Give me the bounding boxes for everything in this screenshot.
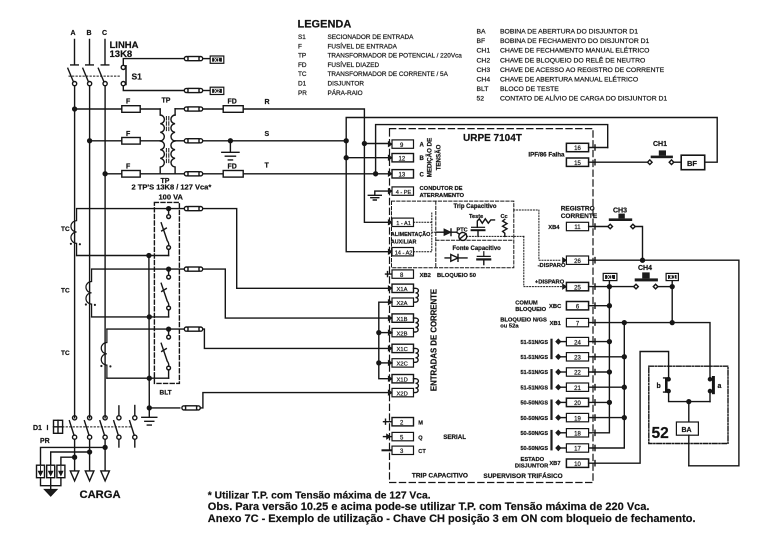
svg-text:A: A: [420, 143, 425, 149]
terminal 16: [566, 143, 588, 151]
svg-text:URPE 7104T: URPE 7104T: [463, 133, 522, 144]
svg-text:13: 13: [399, 173, 406, 179]
junction phase B to S row: [88, 139, 92, 143]
svg-text:S: S: [265, 131, 270, 138]
wire BA bottom: [688, 435, 690, 466]
svg-text:+DISPARO: +DISPARO: [535, 279, 565, 285]
junction CH3 on 26 wire: [641, 258, 645, 262]
junction phase A to R row: [73, 107, 77, 111]
svg-text:B: B: [420, 156, 425, 162]
winding pair B: [414, 318, 419, 332]
svg-text:DISJUNTOR: DISJUNTOR: [328, 81, 365, 88]
wire oval to X1 box: [203, 58, 211, 60]
wire load B: [89, 439, 91, 471]
breaker aux box 52 dash-dot: [649, 366, 728, 443]
svg-text:BLOQUEIO: BLOQUEIO: [515, 307, 546, 313]
svg-text:BA: BA: [477, 29, 487, 36]
svg-text:TC: TC: [61, 288, 70, 295]
svg-text:MEDIÇÃO DE: MEDIÇÃO DE: [427, 138, 434, 178]
svg-text:LEGENDA: LEGENDA: [298, 19, 352, 31]
wire TC3 top lead: [107, 328, 184, 330]
svg-text:a: a: [718, 383, 722, 390]
terminal 10: [566, 459, 588, 467]
svg-text:TRIP CAPACITIVO: TRIP CAPACITIVO: [412, 473, 468, 480]
pair bar 18-17: [550, 430, 552, 451]
wire TC1 top lead: [77, 208, 185, 210]
wire bus to X2B: [379, 332, 392, 334]
terminal X1A: [388, 286, 392, 291]
wire TC3 to X1C: [203, 329, 389, 348]
junction R at terminal 9: [362, 142, 366, 146]
wire R junction to terminal 9: [364, 143, 388, 145]
wire B to arrester 2: [51, 452, 90, 465]
svg-text:TRANSFORMADOR DE POTENCIAL / 2: TRANSFORMADOR DE POTENCIAL / 220Vca: [328, 53, 463, 60]
svg-text:51-51N/GS: 51-51N/GS: [520, 355, 548, 361]
terminal 8: [386, 272, 393, 277]
terminal 2: [384, 419, 393, 424]
terminal X1C: [388, 346, 392, 351]
svg-text:Obs. Para versão 10.25 e acima: Obs. Para versão 10.25 e acima pode-se u…: [208, 501, 650, 513]
TC3 polarity dots: [100, 365, 102, 367]
load arrow C: [101, 471, 110, 481]
svg-text:S1: S1: [132, 72, 143, 82]
dotted PTC output row: [467, 235, 524, 237]
gang linkage dotted line: [69, 75, 122, 77]
wire TC1 bottom lead: [77, 255, 169, 257]
wire CH1 to BF: [674, 161, 681, 163]
wire phase C incoming: [101, 40, 109, 65]
svg-text:PR: PR: [298, 90, 307, 97]
svg-text:BLOQUEIO 50: BLOQUEIO 50: [437, 273, 476, 279]
junction TC2 lead at BLT switch: [167, 267, 171, 271]
svg-text:16: 16: [574, 146, 581, 152]
wire TP secondary top to R oval: [175, 108, 184, 110]
junction S line end: [344, 139, 348, 143]
wire S1 bottom to X2: [123, 86, 184, 91]
svg-text:CH4: CH4: [638, 265, 652, 272]
resistor Cc: [503, 219, 507, 236]
svg-text:X2: X2: [214, 89, 220, 95]
transformer TP secondary winding: [174, 109, 176, 115]
wire S up to top rail toward BF: [346, 118, 717, 163]
label Trip Capacitivo: [452, 203, 498, 209]
current transformer TC1 secondary: [71, 209, 77, 256]
svg-text:Teste: Teste: [469, 214, 483, 220]
svg-text:BLOCO DE TESTE: BLOCO DE TESTE: [500, 86, 559, 93]
winding pair C: [414, 348, 419, 362]
svg-text:b: b: [657, 383, 661, 390]
wire T to relay terminal 13: [243, 173, 388, 175]
svg-text:X2D: X2D: [397, 391, 408, 397]
breaker D1 mechanism box: [54, 420, 63, 433]
wire bus to X2C: [379, 362, 392, 364]
svg-text:X2C: X2C: [397, 362, 408, 368]
svg-text:SECIONADOR DE ENTRADA: SECIONADOR DE ENTRADA: [328, 34, 415, 41]
arrester common bar: [41, 478, 61, 486]
svg-text:25: 25: [574, 285, 581, 291]
wire CH4 right down to 7 net: [671, 287, 673, 323]
terminal X2C: [388, 360, 392, 365]
terminal X1D: [388, 376, 392, 381]
junction BA feed: [687, 400, 691, 404]
svg-text:50-50N/GS: 50-50N/GS: [520, 446, 548, 452]
wire b bottom: [669, 393, 710, 402]
terminal 3: [383, 449, 393, 451]
wire phase A below switch: [74, 86, 76, 418]
disconnect switch pole B: [83, 68, 89, 81]
junction 20 v1: [607, 400, 611, 404]
fuse-link oval X2D row: [182, 406, 186, 410]
svg-text:M: M: [418, 420, 423, 426]
wire S1 top to X1: [123, 59, 184, 66]
terminal 4-PE: [388, 189, 392, 194]
junction phase C to T row: [103, 172, 107, 176]
svg-text:51-51N/GS: 51-51N/GS: [520, 340, 548, 346]
svg-text:CONTATO DE ALÍVIO DE CARGA DO: CONTATO DE ALÍVIO DE CARGA DO DISJUNTOR …: [500, 94, 667, 103]
svg-text:CHAVE DE ABERTURA MANUAL ELÉTR: CHAVE DE ABERTURA MANUAL ELÉTRICO: [500, 75, 638, 84]
svg-text:ALIMENTAÇÃO: ALIMENTAÇÃO: [391, 231, 430, 238]
terminal 9: [388, 142, 392, 147]
svg-text:17: 17: [574, 447, 581, 453]
junction T rail: [374, 172, 378, 176]
terminal X2A: [388, 300, 392, 305]
coil BA: [676, 422, 698, 435]
junction A to PR: [73, 455, 77, 459]
wire CH3 down to 26 net: [635, 227, 642, 261]
svg-text:1 - A1: 1 - A1: [396, 221, 411, 227]
svg-text:XB2: XB2: [420, 273, 431, 279]
svg-text:BLT: BLT: [477, 86, 489, 93]
connector X2: [210, 87, 224, 94]
svg-text:CONDUTOR DE: CONDUTOR DE: [420, 186, 463, 192]
svg-text:CARGA: CARGA: [80, 489, 121, 501]
disconnect switch pole C: [98, 68, 104, 81]
svg-text:Fonte Capacitivo: Fonte Capacitivo: [453, 246, 502, 252]
fuse-link oval TC3 row: [184, 327, 188, 331]
svg-text:CH4: CH4: [477, 77, 491, 84]
wire a bottom: [709, 393, 711, 402]
terminal 7: [566, 318, 588, 326]
fuse-link oval R row: [184, 107, 188, 111]
svg-text:X1D: X1D: [397, 377, 408, 383]
svg-text:TC: TC: [61, 226, 70, 233]
wire S down to 14-A2: [346, 141, 388, 252]
svg-text:CH3: CH3: [613, 208, 627, 215]
pair bar 20-19: [550, 400, 552, 421]
wire phase A incoming: [71, 40, 79, 65]
svg-text:C: C: [420, 172, 425, 178]
svg-text:S1: S1: [298, 34, 306, 41]
svg-text:FUSÍVEL DIAZED: FUSÍVEL DIAZED: [328, 60, 380, 69]
connector X1 right of CH4: [671, 281, 673, 287]
svg-text:PÁRA-RAIO: PÁRA-RAIO: [328, 88, 363, 97]
wire 4-PE to ground: [375, 191, 392, 195]
wire 17 tick: [594, 445, 596, 450]
svg-text:FD: FD: [298, 62, 307, 69]
svg-text:52: 52: [477, 96, 485, 103]
pair bar 24-23: [550, 339, 552, 360]
legend left column descriptions: [328, 34, 463, 97]
diode D aux: [437, 231, 445, 233]
svg-text:A: A: [71, 30, 76, 37]
svg-text:SERIAL: SERIAL: [443, 434, 466, 441]
wire F2 to TP primary mid: [140, 140, 160, 142]
contact b: [667, 378, 670, 381]
wire 15 to CH1: [589, 160, 650, 165]
terminal X1B: [388, 316, 392, 321]
wire R to relay terminal 9: [243, 109, 364, 144]
wire T up to top rail toward terminal 16: [376, 125, 608, 174]
ground below BLT: [142, 408, 157, 425]
svg-text:50-50N/GS: 50-50N/GS: [520, 416, 548, 422]
svg-text:SUPERVISOR TRIFÁSICO: SUPERVISOR TRIFÁSICO: [483, 471, 562, 480]
legend right column descriptions: [500, 29, 667, 103]
wire TC1 to X1A: [203, 209, 389, 289]
svg-text:TC: TC: [298, 71, 307, 78]
junction 21 v2: [622, 385, 626, 389]
wire 11 to CH3: [589, 224, 609, 229]
svg-text:BLOQUEIO N/GS: BLOQUEIO N/GS: [500, 317, 547, 323]
wire A to fuse F1: [75, 108, 122, 110]
wire C to arrester 1: [41, 447, 106, 465]
svg-text:REGISTRO: REGISTRO: [561, 206, 595, 213]
svg-text:XB1: XB1: [550, 321, 562, 327]
resistor Teste: [477, 219, 494, 228]
wire F1 to TP primary: [140, 108, 160, 110]
junction 25 bus v1: [607, 285, 611, 289]
terminal 5: [384, 436, 393, 438]
wire B to fuse F2: [90, 140, 122, 142]
earth triangle: [44, 489, 57, 496]
svg-text:BLT: BLT: [160, 390, 172, 397]
fuse-link oval X2 row: [184, 88, 188, 92]
bus v2: [589, 323, 625, 448]
svg-text:19: 19: [574, 416, 581, 422]
wire to BA coil: [688, 402, 690, 422]
breaker pole A: [73, 416, 77, 420]
svg-text:26: 26: [574, 259, 581, 265]
wire oval to FD2: [203, 173, 224, 175]
diode Fonte: [445, 255, 467, 262]
junction CH4 on 7 wire: [670, 321, 674, 325]
svg-text:BF: BF: [477, 38, 486, 45]
fuse-link oval TC2 row: [184, 267, 188, 271]
terminal 11: [566, 222, 588, 230]
junction 24 v1: [607, 340, 611, 344]
current transformer TC2 secondary: [86, 269, 92, 317]
svg-text:ENTRADAS DE CORRENTE: ENTRADAS DE CORRENTE: [430, 289, 439, 391]
svg-text:10: 10: [574, 462, 581, 468]
wire CH4 right: [658, 286, 672, 288]
trip box divider vertical: [435, 201, 437, 268]
breaker aux pole 5: [134, 406, 136, 416]
svg-text:CH3: CH3: [477, 67, 491, 74]
wire bus to X2D oval: [149, 407, 180, 409]
svg-text:I: I: [47, 425, 49, 432]
svg-text:CH1: CH1: [653, 141, 667, 148]
junction 6 bus v1: [607, 304, 611, 308]
terminal X2B: [388, 330, 392, 335]
TC1 polarity dots: [70, 243, 72, 245]
svg-text:CORRENTE: CORRENTE: [561, 213, 598, 220]
svg-text:IPF/86 Falha: IPF/86 Falha: [528, 151, 565, 158]
wire 6 to bus v1: [589, 303, 610, 308]
junction 22 v1: [607, 370, 611, 374]
svg-text:BOBINA DE FECHAMENTO DO DISJUN: BOBINA DE FECHAMENTO DO DISJUNTOR D1: [500, 38, 650, 45]
junction C to PR: [103, 445, 107, 449]
svg-text:50-50N/GS: 50-50N/GS: [520, 401, 548, 407]
ground at 4-PE: [368, 195, 381, 200]
svg-text:DISJUNTOR: DISJUNTOR: [515, 463, 549, 469]
BLT switch 1: [168, 209, 170, 215]
svg-text:CHAVE DE ACESSO AO REGISTRO DE: CHAVE DE ACESSO AO REGISTRO DE CORRENTE: [500, 67, 665, 74]
svg-text:XB7: XB7: [549, 461, 560, 467]
CT return bus: [148, 256, 150, 408]
svg-text:22: 22: [574, 371, 581, 377]
dotted aux links to trip box: [414, 213, 437, 252]
svg-text:X1: X1: [214, 58, 220, 64]
svg-text:C: C: [102, 30, 107, 37]
terminal 13: [388, 171, 392, 176]
trip box divider horizontal: [436, 239, 514, 241]
svg-text:XB4: XB4: [548, 225, 560, 231]
svg-text:CH1: CH1: [477, 48, 491, 55]
terminal 18: [556, 430, 561, 435]
wire X2A to residual bus: [379, 302, 392, 379]
wire TC2 to X1B: [203, 269, 389, 318]
svg-text:11: 11: [574, 225, 581, 231]
svg-text:R: R: [265, 99, 270, 106]
svg-text:15: 15: [574, 161, 581, 167]
disconnect switch pole A: [68, 68, 74, 81]
PTC thermistor: [457, 232, 460, 234]
winding pair D: [414, 379, 419, 393]
svg-text:X1B: X1B: [397, 317, 408, 323]
svg-text:COMUM: COMUM: [515, 301, 538, 307]
svg-text:FD: FD: [228, 164, 237, 171]
svg-text:TRANSFORMADOR DE CORRENTE / 5A: TRANSFORMADOR DE CORRENTE / 5A: [328, 71, 449, 78]
svg-text:TP: TP: [298, 53, 306, 60]
wire 26 to BA return: [589, 258, 739, 466]
terminal 25: [563, 284, 567, 289]
fuse F2: [122, 138, 140, 145]
junction 19 v2: [622, 416, 626, 420]
terminal 17: [556, 445, 561, 450]
wire 25 to CH4: [589, 284, 634, 289]
svg-text:D1: D1: [33, 425, 42, 432]
terminal 1-A1: [388, 220, 392, 225]
coil BF: [681, 155, 705, 170]
wire oval to FD1: [203, 108, 224, 110]
svg-text:23: 23: [574, 356, 581, 362]
svg-text:Q: Q: [418, 435, 423, 441]
svg-text:18: 18: [574, 432, 581, 438]
wire F3 to T row: [140, 173, 184, 175]
junction bus X2B: [377, 331, 381, 335]
fuse-link oval X1 row: [184, 57, 188, 61]
transformer TP primary winding: [159, 109, 161, 115]
terminal 26: [563, 258, 567, 263]
terminal 20: [556, 400, 561, 405]
wire C to fuse F3: [105, 173, 122, 175]
svg-text:-DISPARO: -DISPARO: [538, 263, 566, 269]
svg-text:100 VA: 100 VA: [159, 193, 184, 202]
wire 19 to v2: [589, 415, 625, 420]
svg-text:ESTADO: ESTADO: [520, 457, 544, 463]
junction 7 bus v2: [622, 321, 626, 325]
svg-text:51-51N/GS: 51-51N/GS: [520, 385, 548, 391]
ground at S row: [222, 141, 239, 160]
svg-text:BA: BA: [682, 427, 692, 434]
svg-text:X1: X1: [607, 275, 613, 281]
junction TC3 return to bus: [147, 376, 151, 380]
breaker pole B: [88, 416, 92, 420]
fuse FD2 diazed: [223, 171, 243, 178]
svg-text:X1C: X1C: [397, 347, 408, 353]
wire phase B incoming: [86, 40, 94, 65]
wire 21 to v2: [589, 385, 625, 390]
terminal 21: [556, 385, 561, 390]
svg-text:20: 20: [574, 401, 581, 407]
load arrow A: [70, 471, 79, 481]
wire 23 to v2: [589, 354, 625, 359]
svg-text:52: 52: [652, 425, 669, 442]
load arrow B: [85, 471, 94, 481]
svg-text:TP: TP: [162, 98, 171, 105]
svg-text:TC: TC: [61, 350, 70, 357]
breaker pole C: [103, 416, 107, 420]
wire 10 to contact b: [589, 352, 669, 466]
fuse FD1 diazed: [223, 106, 243, 113]
surge arrester PR3: [57, 465, 65, 478]
svg-text:X1A: X1A: [397, 287, 408, 293]
svg-text:TENSÃO: TENSÃO: [436, 144, 443, 170]
transformer TP core marks: [166, 117, 168, 163]
svg-text:X1: X1: [669, 275, 675, 281]
TC2 polarity dots: [85, 303, 87, 305]
wire 18 tick: [594, 430, 596, 435]
dotted link fonte to +DISPARO: [524, 236, 562, 286]
terminal 23: [556, 354, 561, 359]
svg-text:21: 21: [574, 386, 581, 392]
svg-text:51-51N/GS: 51-51N/GS: [520, 370, 548, 376]
svg-text:BOBINA DE ABERTURA DO DISJUNTO: BOBINA DE ABERTURA DO DISJUNTOR D1: [500, 29, 638, 36]
svg-text:Trip Capacitivo: Trip Capacitivo: [454, 204, 497, 210]
wire oval to X2 box: [203, 90, 211, 92]
terminal 12: [388, 155, 392, 160]
svg-text:14 - A2: 14 - A2: [395, 250, 413, 256]
wire 20 to v1: [589, 400, 610, 405]
svg-text:PR: PR: [40, 438, 50, 445]
junction TC2 return to bus: [147, 315, 151, 319]
svg-text:X2B: X2B: [397, 331, 408, 337]
junction CH4 right: [670, 285, 674, 289]
legend left column codes: [298, 34, 307, 97]
junction TC1 lead at BLT switch: [167, 207, 171, 211]
capacitor Fonte: [477, 252, 490, 257]
dotted link trip to -DISPARO: [514, 210, 562, 260]
svg-text:T: T: [265, 162, 270, 169]
svg-text:50-50N/GS: 50-50N/GS: [520, 431, 548, 437]
junction B to PR: [88, 450, 92, 454]
fuse F1: [122, 106, 140, 113]
svg-text:CT: CT: [418, 449, 426, 455]
wire R down to 1-A1: [364, 144, 388, 223]
wire TP secondary mid tap S: [175, 140, 184, 142]
svg-text:CH2: CH2: [477, 57, 491, 64]
wire phase C below switch: [104, 86, 106, 418]
junction TC3 lead at BLT switch: [167, 327, 171, 331]
